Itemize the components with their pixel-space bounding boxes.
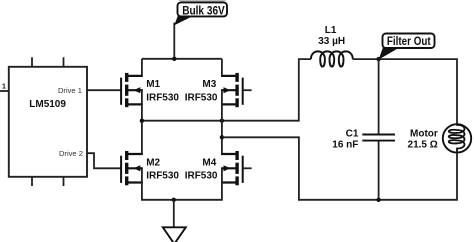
svg-text:LM5109: LM5109 bbox=[29, 99, 66, 110]
junction dot rail B at bus bbox=[220, 135, 224, 139]
transistor M3 (mirrored) bbox=[221, 73, 243, 107]
junction dot rail A left bbox=[140, 119, 144, 123]
svg-text:IRF530: IRF530 bbox=[146, 171, 179, 182]
flag Filter Out box bbox=[383, 34, 435, 49]
svg-text:L1: L1 bbox=[325, 25, 337, 36]
svg-text:M4: M4 bbox=[202, 157, 216, 168]
junction dot C1 bottom bbox=[376, 198, 380, 202]
svg-text:IRF530: IRF530 bbox=[185, 92, 218, 103]
flag Filter Out tail bbox=[379, 47, 398, 60]
junction dot filter out bbox=[376, 57, 380, 61]
wire: top rail (Bulk) bbox=[142, 58, 222, 60]
svg-text:1: 1 bbox=[2, 83, 6, 90]
svg-text:IRF530: IRF530 bbox=[146, 92, 179, 103]
cropped element above top edge bbox=[178, 0, 227, 1]
svg-text:Drive 2: Drive 2 bbox=[59, 149, 83, 158]
ground symbol bbox=[163, 227, 186, 242]
wire: Drive 2 to M2 gate bbox=[87, 153, 121, 168]
svg-text:21.5 Ω: 21.5 Ω bbox=[408, 139, 438, 150]
transistor M2 bbox=[121, 151, 143, 185]
IC top pin stub A bbox=[31, 57, 33, 67]
wire: rail A to inductor bbox=[142, 59, 311, 121]
wire: M1 drain riser bbox=[141, 59, 143, 76]
inductor L1 coil bbox=[311, 51, 353, 66]
wire: M3 gate stub bbox=[243, 89, 252, 91]
svg-text:Motor: Motor bbox=[410, 128, 438, 139]
svg-text:Filter Out: Filter Out bbox=[387, 34, 431, 48]
flag Bulk 36V tail bbox=[174, 15, 191, 25]
motor M circle bbox=[443, 124, 471, 152]
junction dot rail A at bus bbox=[220, 119, 224, 123]
IC bottom pin stub B bbox=[63, 177, 65, 186]
wire: inductor to motor top bbox=[353, 59, 457, 124]
transistor M4 (mirrored) bbox=[221, 151, 243, 185]
flag Bulk 36V box bbox=[178, 2, 228, 16]
IC U1 LM5109 body bbox=[9, 67, 87, 177]
wire: rail B to bottom rail to motor bbox=[222, 137, 457, 200]
svg-text:Drive 1: Drive 1 bbox=[58, 86, 82, 95]
wire: Drive 1 to M1 gate bbox=[87, 89, 121, 91]
transistor M1 bbox=[121, 73, 143, 107]
IC top pin stub B bbox=[63, 57, 65, 67]
IC pin 1 wire (left) bbox=[0, 90, 9, 92]
svg-text:33 µH: 33 µH bbox=[318, 36, 345, 47]
capacitor C1 top plate bbox=[362, 134, 395, 136]
svg-text:Bulk 36V: Bulk 36V bbox=[182, 3, 225, 17]
wire: C1 bottom lead bbox=[378, 141, 380, 200]
wire: M3 drain riser bbox=[221, 59, 223, 76]
wire: M3 source to M4 drain bus bbox=[221, 104, 223, 154]
wire: M2 source to ground rail to M4 source bbox=[142, 183, 222, 200]
wire: C1 top lead bbox=[378, 59, 380, 134]
IC bottom pin stub A bbox=[31, 177, 33, 186]
svg-text:M2: M2 bbox=[146, 157, 160, 168]
wire: bulk tap vertical bbox=[173, 23, 175, 59]
motor coil bbox=[449, 124, 465, 152]
svg-text:M1: M1 bbox=[146, 79, 160, 90]
wire: ground tap vertical bbox=[173, 200, 175, 228]
svg-text:M3: M3 bbox=[202, 79, 216, 90]
wire: M1 source / rail A / M2 drain column bbox=[141, 104, 143, 154]
junction dot ground tap bbox=[172, 198, 176, 202]
capacitor C1 bottom plate bbox=[362, 140, 395, 142]
svg-text:16 nF: 16 nF bbox=[332, 139, 358, 150]
svg-text:C1: C1 bbox=[346, 128, 359, 139]
wire: M4 gate stub bbox=[243, 167, 252, 169]
svg-text:IRF530: IRF530 bbox=[185, 171, 218, 182]
junction dot bulk tap bbox=[172, 57, 176, 61]
